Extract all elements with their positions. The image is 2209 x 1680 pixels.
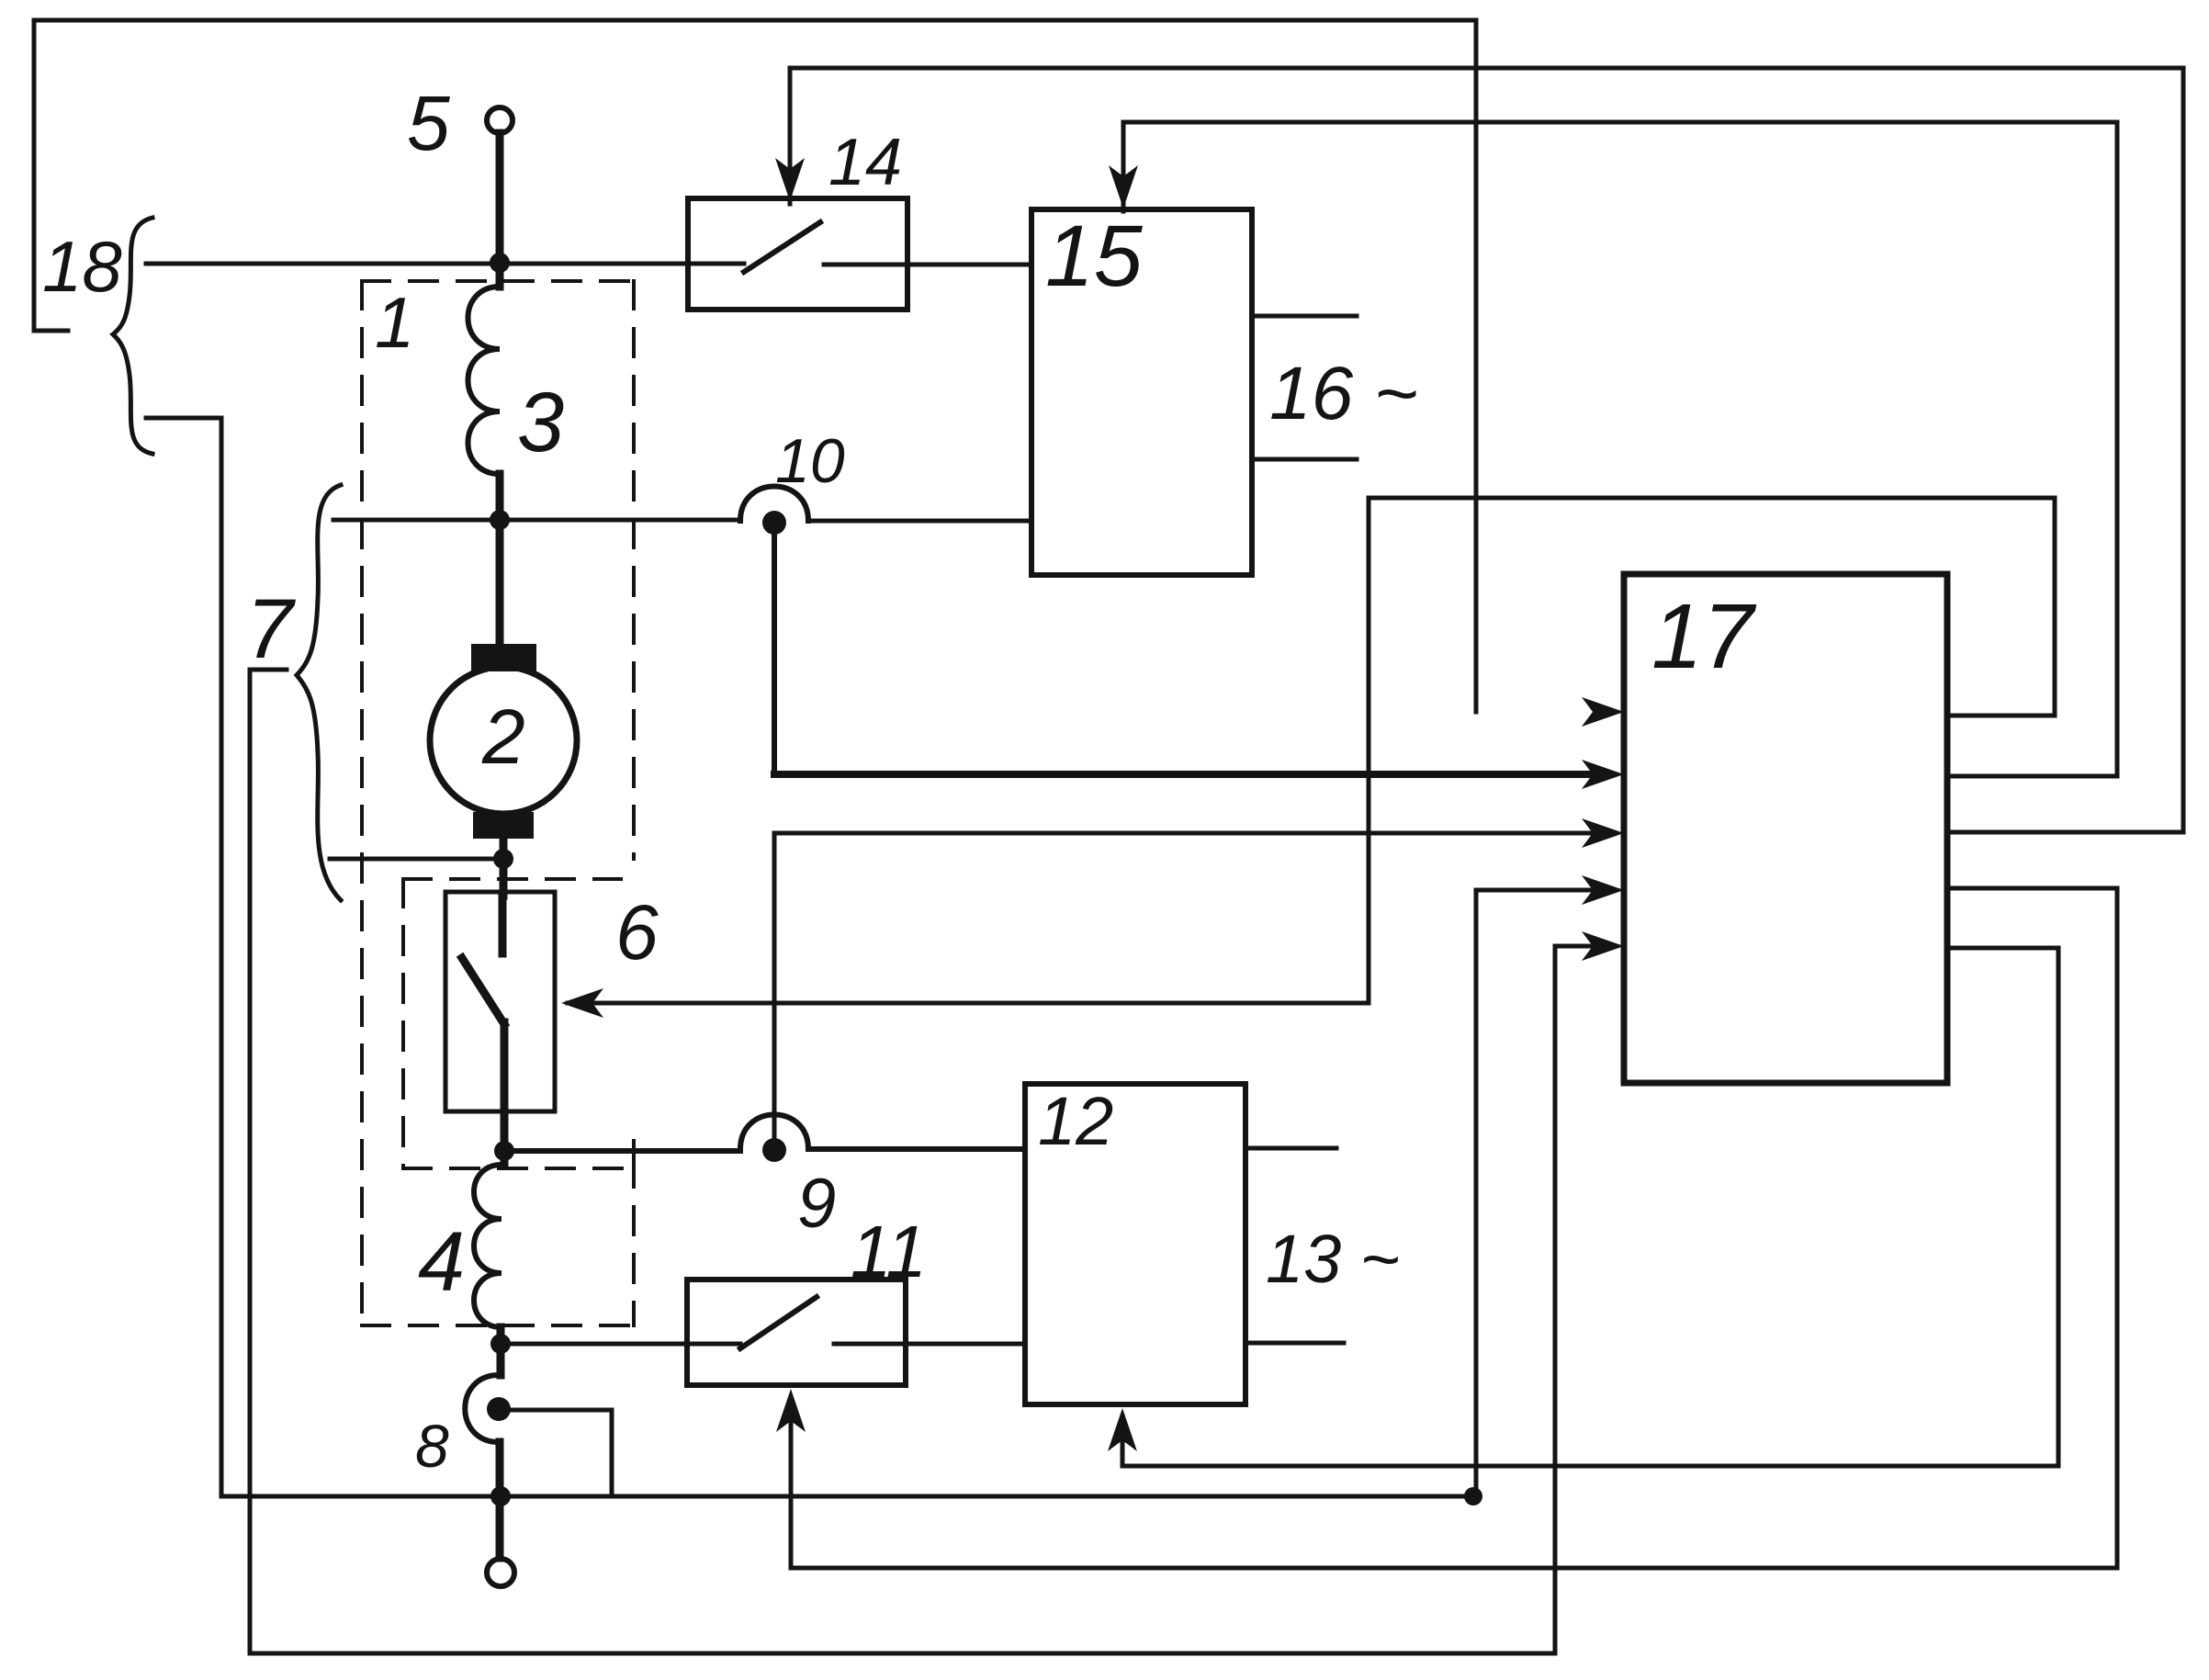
svg-text:4: 4 [418, 1215, 465, 1309]
junction node switch 6 bottom [494, 1141, 514, 1161]
svg-text:6: 6 [615, 889, 659, 975]
wire input 5 of unit 17 from brush tap 7 along page bottom [250, 670, 1602, 1653]
wire from inductor 4 bottom node to relay 11 [501, 1342, 740, 1347]
svg-text:7: 7 [246, 582, 296, 676]
junction node inductor 4 bottom [490, 1334, 511, 1354]
arrowhead into block 12 bottom [1108, 1408, 1137, 1451]
relay 11 box [687, 1280, 906, 1385]
arrowhead into relay 11 bottom [776, 1389, 806, 1432]
block 12 output stub lower [1245, 1341, 1344, 1346]
terminal 8 [487, 1559, 514, 1586]
wire from sensor 8 to terminal 8 [496, 1442, 504, 1558]
svg-text:17: 17 [1651, 585, 1757, 688]
brace 18 [113, 218, 152, 454]
arrowhead into switch 6 right [561, 988, 603, 1018]
block 12 box [1025, 1084, 1245, 1404]
motor upper brush [471, 644, 536, 671]
inductor 3 [468, 287, 501, 474]
terminal 5 [487, 107, 513, 133]
svg-text:15: 15 [1045, 208, 1144, 305]
dashed box 1 (motor unit) [362, 281, 634, 1325]
block 15 box [1031, 209, 1252, 575]
wire stub at motor lower brush node [330, 857, 503, 862]
block 15 output stub lower [1252, 457, 1357, 462]
block 15 output stub upper [1252, 314, 1357, 319]
arrowhead input 2 unit 17 [1582, 760, 1624, 789]
wire from relay 11 right contact to block 12 [834, 1342, 1025, 1347]
wire switch 6 lower contact down to node [501, 1022, 509, 1165]
svg-text:11: 11 [851, 1211, 927, 1292]
sensor 10 dot [762, 511, 786, 535]
wire from sensor 10 to block 15 lower input [808, 519, 1031, 524]
svg-text:3: 3 [517, 376, 564, 469]
switch 6 box [445, 892, 555, 1111]
wire from inductor 4 to sensor 8 [497, 1327, 505, 1375]
wire from switch 6 bottom node through sensor 9 to block 12 [504, 1148, 740, 1154]
sensor 8 dot [487, 1397, 511, 1421]
wire drop from sensor 10 node down and thick input 2 of unit 17 [772, 533, 777, 772]
sensor 9 hump [740, 1115, 808, 1150]
wire control loop from unit 17 output 5 to block 12 bottom [1122, 948, 2058, 1466]
relay 14 blade [744, 222, 820, 272]
wire switch 6 upper contact stub [499, 896, 507, 953]
current sensor 8 loop [465, 1375, 499, 1442]
wire control loop from unit 17 output 4 to relay 11 bottom [791, 888, 2117, 1568]
arrowhead input 1 unit 17 [1582, 697, 1624, 727]
wire from inductor 3 to motor upper brush [496, 474, 504, 646]
wire control line from unit 17 output to block 15 top [1123, 122, 2117, 776]
wire from relay 14 right contact to block 15 [824, 263, 1031, 267]
wire main rail from terminal 5 to inductor 3 [496, 133, 504, 287]
motor 2 circle [430, 667, 577, 814]
junction node A (rail / line 285) [490, 253, 510, 273]
wire net-18 top line with left frame corner and drop to input 1 of unit 17 [34, 20, 1476, 712]
arrowhead input 4 unit 17 [1582, 875, 1624, 905]
svg-text:1: 1 [375, 282, 414, 363]
arrowhead into block 15 top [1109, 165, 1138, 209]
wire net-18 lower arm down left side and along y=1629 to input-4 riser [146, 418, 1473, 1496]
brace 7 [297, 485, 341, 900]
wire input 4 of unit 17 from node at motor minus rail [1476, 890, 1602, 1496]
wire from motor lower brush to switch 6 [500, 837, 508, 896]
svg-text:14: 14 [828, 126, 902, 199]
junction node input-4 riser bottom [1464, 1487, 1482, 1505]
unit 17 box [1624, 574, 1947, 1083]
relay 14 box [688, 198, 907, 310]
svg-text:5: 5 [407, 80, 450, 166]
arrowhead into relay 14 top [775, 158, 805, 201]
sensor 10 hump [740, 487, 808, 522]
junction node terminal 8 rail [490, 1486, 511, 1506]
wire tap from current sensor 8 elbow to bottom rail [507, 1410, 612, 1496]
junction node B (rail / line 566) [490, 510, 510, 530]
sensor 9 dot [762, 1138, 786, 1162]
junction node motor lower brush [493, 849, 513, 869]
wire riser from sensor 9 node and input 3 of unit 17 [774, 833, 1598, 1137]
svg-text:9: 9 [797, 1165, 836, 1243]
block 12 output stub upper [1245, 1146, 1336, 1151]
wire control line from unit 17 output to relay 14 (top feedback loop) [790, 68, 2183, 832]
svg-text:18: 18 [42, 226, 122, 307]
relay 11 blade [740, 1297, 817, 1348]
arrowhead input 5 unit 17 [1582, 931, 1624, 961]
wire line from brace 7 area through node B to sensor 10 [333, 518, 740, 523]
inductor 4 [474, 1165, 502, 1327]
svg-text:16 ~: 16 ~ [1269, 352, 1418, 435]
wire line from brace 18 through node A to relay 14 [146, 262, 744, 266]
motor lower brush [473, 812, 534, 839]
svg-text:8: 8 [415, 1412, 449, 1480]
dashed box 6 (switch unit) [403, 879, 634, 1168]
svg-text:10: 10 [775, 426, 845, 496]
svg-text:2: 2 [481, 693, 525, 780]
svg-text:13 ~: 13 ~ [1266, 1221, 1400, 1297]
arrowhead input 3 unit 17 [1582, 818, 1624, 848]
switch 6 blade [462, 958, 504, 1024]
wire control loop from unit 17 output 1 to switch 6 [568, 498, 2055, 1003]
svg-text:12: 12 [1038, 1083, 1113, 1159]
